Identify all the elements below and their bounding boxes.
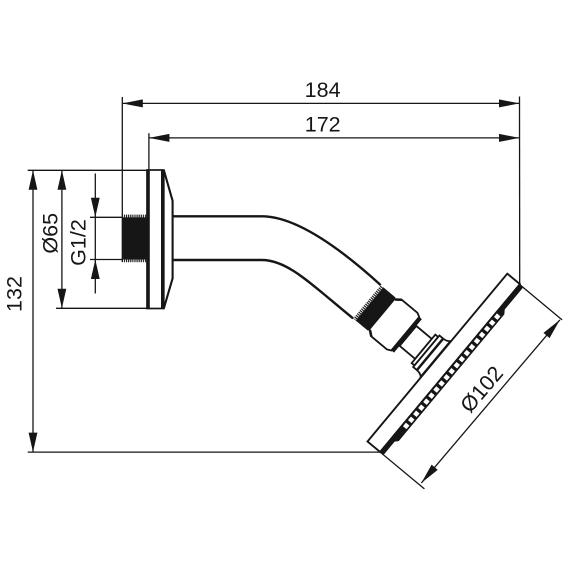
dimension O65 bottom arrow xyxy=(58,289,67,309)
dimension O65 line xyxy=(61,170,63,308)
thread left face line xyxy=(121,215,123,263)
extension line left of 184 (thread tip) xyxy=(121,97,123,215)
O102 top arrow xyxy=(543,317,562,338)
shower head group xyxy=(368,274,526,457)
thread serration bottom xyxy=(123,260,148,263)
svg-text:G1/2: G1/2 xyxy=(67,219,91,266)
flange plate left face thick line xyxy=(147,170,150,309)
dimension 184 line xyxy=(122,102,519,104)
ball joint group: axis 39.8deg from horizontal xyxy=(352,284,451,378)
arm end thread serration xyxy=(353,285,383,320)
nozzle holes row xyxy=(403,313,501,429)
flange plate right face thick line xyxy=(161,170,164,309)
cone chamfer facet line lower xyxy=(368,330,375,337)
extension tick thread bottom xyxy=(90,259,123,261)
arm end black ring nut xyxy=(356,287,396,330)
svg-text:172: 172 xyxy=(305,113,341,137)
svg-text:132: 132 xyxy=(3,276,27,312)
O102 dimension line xyxy=(421,320,559,483)
collar foot xyxy=(415,337,450,377)
dimension 172 left arrow xyxy=(149,134,170,142)
extension line bottom (head lowest point) xyxy=(28,451,380,453)
ridge disc A xyxy=(412,335,439,366)
extension line O65 bottom (flange bottom) xyxy=(56,307,147,309)
shower arm top line xyxy=(173,216,381,285)
svg-text:184: 184 xyxy=(305,78,341,102)
head cover disc (side view) xyxy=(368,274,520,452)
cone trailing thick edge xyxy=(391,317,422,353)
thread serration top xyxy=(123,215,148,218)
O102 extension line top xyxy=(520,285,562,320)
dimension O65 top arrow xyxy=(58,170,67,190)
dimension 132 top arrow xyxy=(29,170,38,190)
spray face plate (black) xyxy=(379,284,525,457)
O102 extension line bottom xyxy=(380,452,425,489)
dimension 132 line xyxy=(32,170,34,452)
neck cylinder xyxy=(400,326,432,359)
flange cone (escutcheon) xyxy=(164,170,173,309)
extension line right of 184/172 (head outer face) xyxy=(519,97,521,286)
extension line left of 172 (wall face) xyxy=(148,133,150,170)
extension tick thread top xyxy=(90,216,123,218)
dimension G1/2 top arrow (points down) xyxy=(91,198,100,218)
ridge disc B xyxy=(413,335,443,369)
thread nipple G1/2 black core xyxy=(122,217,147,259)
O102 bottom arrow xyxy=(418,465,437,486)
dimension G1/2 bottom arrow (points up) xyxy=(91,260,100,280)
extension line top (flange top) xyxy=(28,169,147,171)
dimension 132 bottom arrow xyxy=(29,433,38,453)
dimension 184 left arrow xyxy=(122,99,143,107)
dimension G1/2 line xyxy=(94,174,96,294)
dimension 184 right arrow xyxy=(499,99,520,107)
svg-text:Ø65: Ø65 xyxy=(39,213,63,254)
shower arm bottom line xyxy=(173,260,354,318)
ball joint cone body xyxy=(367,296,421,352)
dimension 172 line xyxy=(149,137,520,139)
dimension O102 group (line at -49.66deg) xyxy=(380,285,563,489)
cone chamfer facet line upper xyxy=(395,297,402,304)
wall flange plate xyxy=(147,170,164,309)
dimension 172 right arrow xyxy=(499,134,520,142)
